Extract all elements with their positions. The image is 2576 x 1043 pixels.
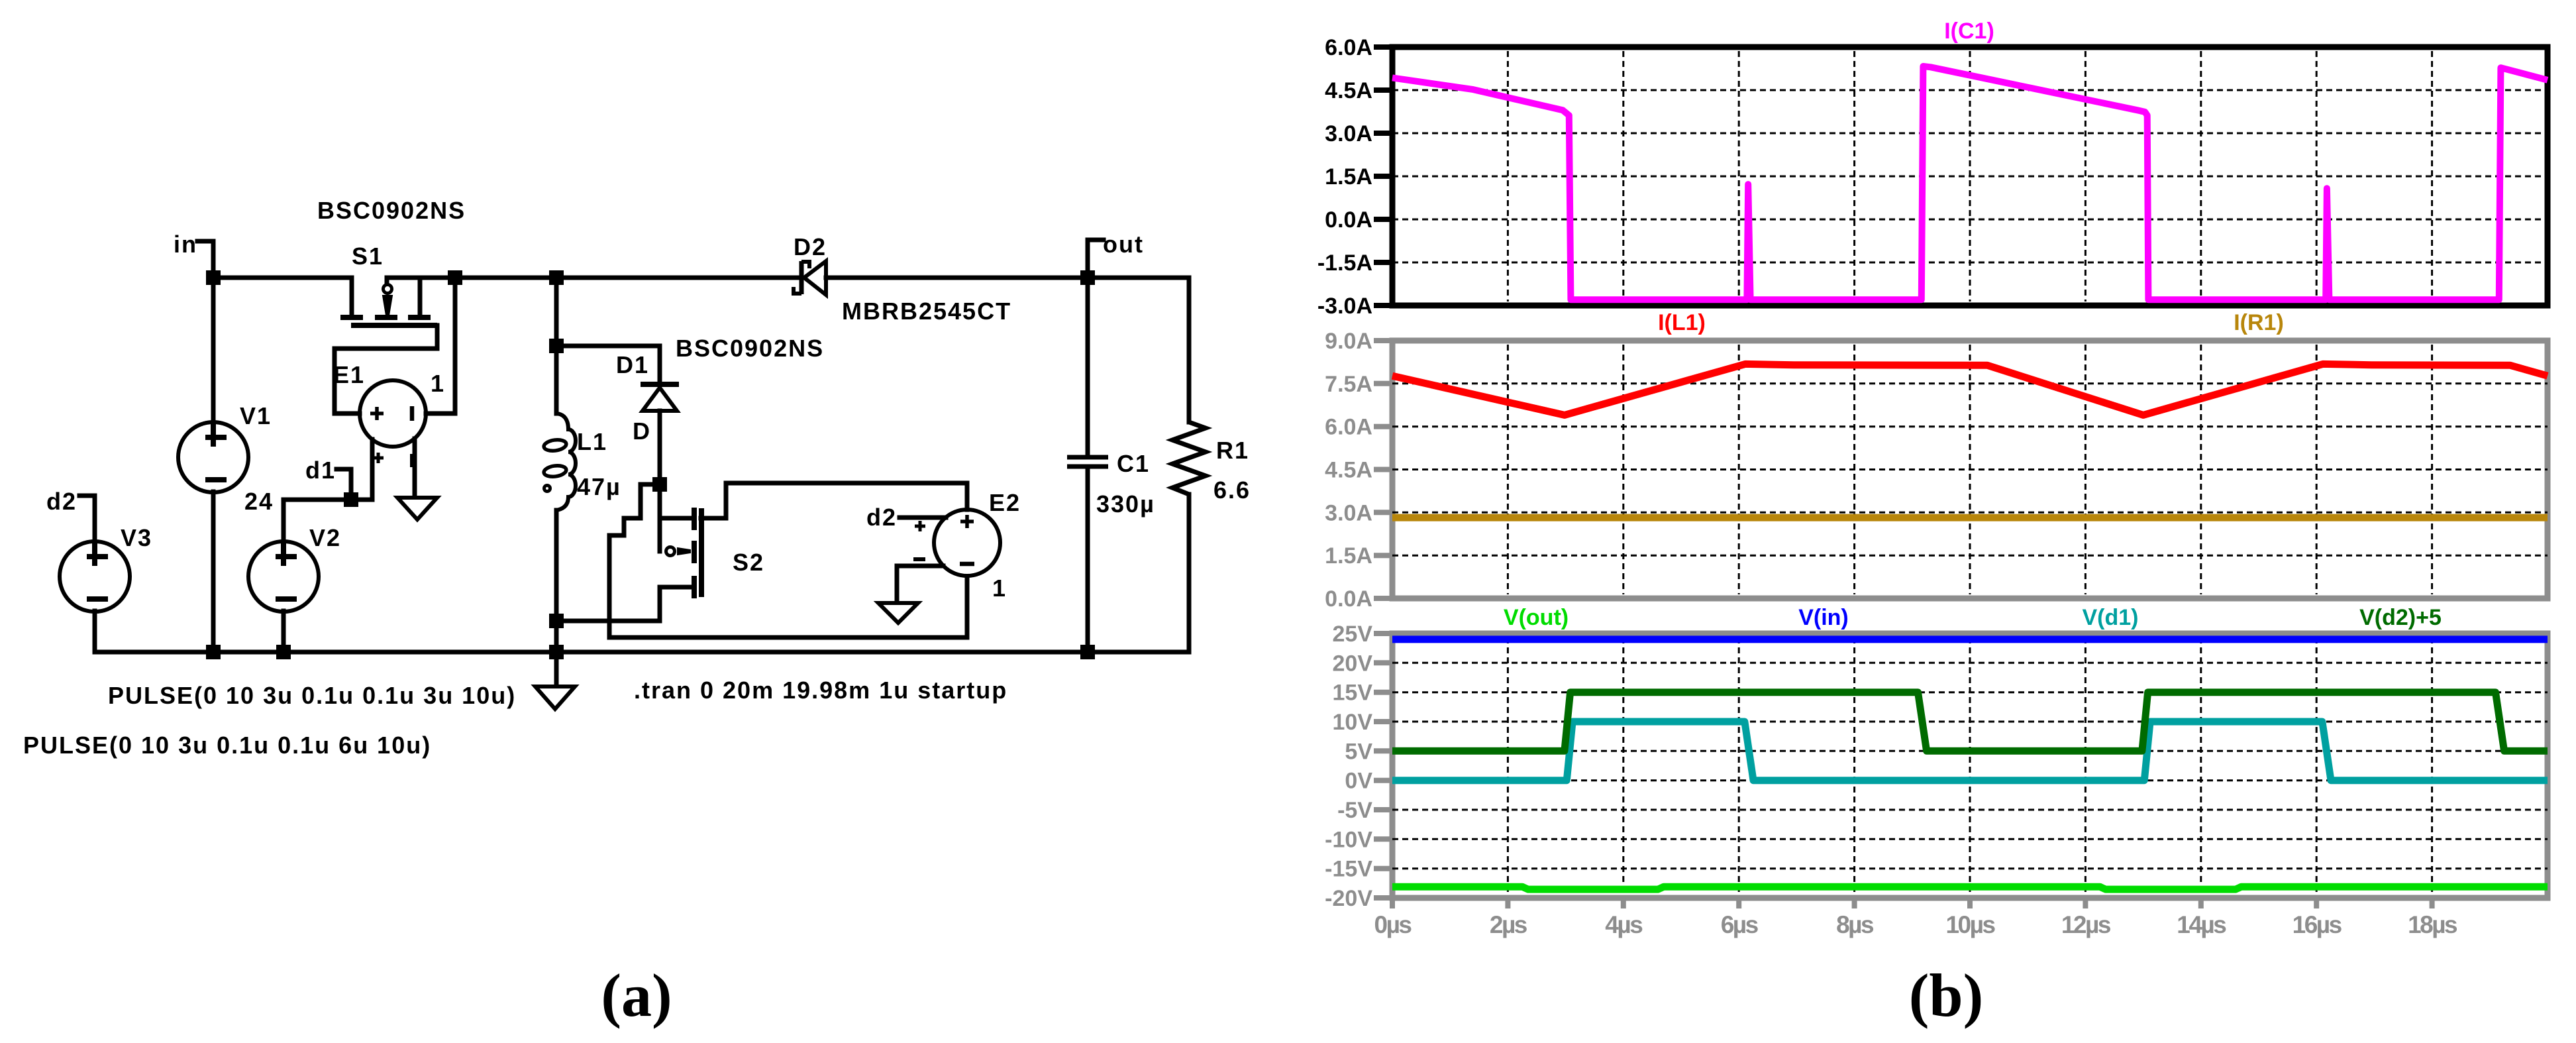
svg-text:20V: 20V bbox=[1333, 651, 1373, 676]
svg-text:6.6: 6.6 bbox=[1213, 476, 1251, 504]
switch S1 (BSC0902NS) bbox=[340, 278, 437, 325]
svg-text:10V: 10V bbox=[1333, 710, 1373, 735]
svg-text:BSC0902NS: BSC0902NS bbox=[317, 197, 466, 224]
waveform V(out) green bbox=[1392, 887, 2548, 889]
wire V2 top bbox=[282, 500, 286, 542]
svg-text:-20V: -20V bbox=[1325, 886, 1372, 911]
svg-text:4.5A: 4.5A bbox=[1325, 78, 1372, 103]
waveform I(R1) dark yellow bbox=[1392, 514, 2548, 521]
node d1 label stub bbox=[336, 469, 351, 500]
pane 3 y tick stubs bbox=[1374, 633, 1392, 898]
wire top rail (D2 anode to R1 top) bbox=[826, 276, 1189, 280]
svg-text:V1: V1 bbox=[240, 402, 272, 429]
svg-text:330µ: 330µ bbox=[1096, 490, 1155, 518]
svg-text:C1: C1 bbox=[1117, 450, 1150, 477]
plot pane 1 border (I(C1)) bbox=[1392, 47, 2548, 305]
pane 1 y axis labels bbox=[1317, 35, 1372, 319]
svg-text:d1: d1 bbox=[305, 457, 336, 484]
wire C1 top bbox=[1086, 278, 1090, 457]
inductor L1 47u bbox=[543, 413, 576, 510]
svg-text:BSC0902NS: BSC0902NS bbox=[676, 335, 824, 362]
capacitor C1 330u bbox=[1067, 457, 1108, 467]
node in label stub bbox=[197, 241, 213, 278]
pane 2 grid bbox=[1508, 345, 2432, 594]
svg-text:1.5A: 1.5A bbox=[1325, 543, 1372, 569]
wire L1 upper lead bbox=[554, 346, 559, 413]
svg-text:V(d2)+5: V(d2)+5 bbox=[2359, 605, 2442, 630]
controlled source E1 bbox=[360, 380, 426, 467]
svg-text:R1: R1 bbox=[1216, 437, 1249, 464]
wire S2 node to drain stubs bbox=[658, 491, 662, 551]
waveform I(C1) magenta bbox=[1392, 66, 2548, 300]
pane 1 grid bbox=[1508, 51, 2432, 302]
svg-text:PULSE(0 10 3u 0.1u 0.1u 3u 10u: PULSE(0 10 3u 0.1u 0.1u 3u 10u) bbox=[108, 682, 516, 709]
svg-text:0V: 0V bbox=[1345, 769, 1372, 794]
wire top rail right (S1 to D2 cathode) bbox=[387, 276, 801, 280]
junction node (322,419) bbox=[206, 270, 221, 285]
svg-text:V(in): V(in) bbox=[1798, 605, 1849, 630]
ground under E1 bbox=[397, 498, 437, 520]
wire bottom ground rail bbox=[95, 650, 1189, 655]
resistor R1 6.6 bbox=[1172, 422, 1206, 494]
svg-text:-1.5A: -1.5A bbox=[1317, 250, 1372, 276]
svg-text:0.0A: 0.0A bbox=[1325, 586, 1372, 612]
pane 3 y axis labels bbox=[1325, 622, 1372, 911]
waveform V(d1) cyan bbox=[1392, 722, 2548, 781]
waveform V(d2)+5 dark green bbox=[1392, 692, 2548, 751]
node d2 label stub (V3) bbox=[79, 496, 95, 542]
svg-text:S2: S2 bbox=[733, 549, 764, 576]
ground under E2 control bbox=[878, 603, 918, 623]
junction node (840,937) bbox=[549, 614, 564, 628]
svg-text:in: in bbox=[174, 231, 197, 258]
pane 2 y axis labels bbox=[1325, 329, 1372, 612]
svg-text:out: out bbox=[1103, 231, 1144, 258]
junction node (1642,984) bbox=[1080, 645, 1095, 659]
junction node (840,984) bbox=[549, 645, 564, 659]
svg-text:1: 1 bbox=[992, 575, 1007, 602]
svg-text:-3.0A: -3.0A bbox=[1317, 294, 1372, 319]
svg-text:D: D bbox=[633, 417, 651, 445]
pane 2 y tick stubs bbox=[1374, 341, 1392, 598]
wire ground stub below rail bbox=[554, 652, 559, 685]
svg-text:1.5A: 1.5A bbox=[1325, 164, 1372, 190]
wire V3 bottom bbox=[93, 611, 97, 652]
svg-text:25V: 25V bbox=[1333, 622, 1373, 647]
svg-text:1: 1 bbox=[431, 370, 445, 397]
wire V1 bottom bbox=[211, 492, 216, 652]
node out label stub bbox=[1088, 240, 1104, 278]
svg-text:4.5A: 4.5A bbox=[1325, 458, 1372, 483]
svg-text:(a): (a) bbox=[601, 961, 672, 1029]
junction node (687,419) bbox=[448, 270, 462, 285]
voltage source V1 bbox=[178, 422, 248, 492]
pane 3 grid bbox=[1508, 637, 2432, 894]
wire S1 gate to E1 plus output bbox=[335, 325, 437, 413]
svg-text:V3: V3 bbox=[121, 524, 152, 551]
svg-text:10µs: 10µs bbox=[1945, 911, 1995, 938]
svg-text:.tran 0 20m 19.98m 1u startup: .tran 0 20m 19.98m 1u startup bbox=[634, 677, 1007, 704]
svg-text:d2: d2 bbox=[866, 504, 897, 531]
wire d1 node to V2 top bbox=[283, 498, 351, 502]
wire D1 anode to S2 node bbox=[658, 411, 662, 484]
svg-text:MBRB2545CT: MBRB2545CT bbox=[842, 298, 1011, 325]
svg-text:0µs: 0µs bbox=[1374, 911, 1412, 938]
junction node (840,419) bbox=[549, 270, 564, 285]
switch S2 (BSC0902NS) bbox=[666, 508, 702, 598]
svg-text:L1: L1 bbox=[577, 428, 607, 455]
node d2 label stub (E2 control) bbox=[900, 516, 946, 520]
waveform I(L1) red bbox=[1392, 364, 2548, 415]
voltage source V2 bbox=[248, 541, 319, 612]
svg-text:2µs: 2µs bbox=[1490, 911, 1527, 938]
wire E1 minus output to top rail bbox=[426, 278, 455, 413]
junction node (996,731) bbox=[652, 477, 667, 492]
svg-text:S1: S1 bbox=[352, 243, 384, 270]
svg-text:47µ: 47µ bbox=[577, 473, 621, 500]
plot pane 3 border (voltages) bbox=[1392, 633, 2548, 898]
wire L1 lower lead bbox=[554, 510, 559, 652]
svg-text:15V: 15V bbox=[1333, 681, 1373, 706]
wire E2 plus output to S2 gate bbox=[701, 483, 967, 518]
wire R1 bottom lead bbox=[1187, 494, 1192, 652]
pane 3 x tick stubs bbox=[1392, 898, 2432, 908]
svg-text:V(out): V(out) bbox=[1504, 605, 1569, 630]
diode D2 (MBRB2545CT) bbox=[794, 261, 826, 295]
svg-text:24: 24 bbox=[244, 488, 274, 515]
junction node (428,984) bbox=[276, 645, 291, 659]
svg-text:D2: D2 bbox=[794, 233, 827, 260]
svg-text:V2: V2 bbox=[309, 524, 341, 551]
wire E2 control minus to ground bbox=[897, 566, 943, 602]
svg-text:E1: E1 bbox=[333, 361, 365, 388]
svg-text:9.0A: 9.0A bbox=[1325, 329, 1372, 354]
wire V1 top bbox=[211, 278, 216, 423]
wire S2 top stub bbox=[660, 516, 690, 521]
svg-text:V(d1): V(d1) bbox=[2083, 605, 2139, 630]
wire R1 top lead bbox=[1187, 278, 1192, 422]
svg-text:-5V: -5V bbox=[1337, 798, 1372, 823]
svg-text:I(R1): I(R1) bbox=[2234, 310, 2284, 335]
svg-text:I(L1): I(L1) bbox=[1658, 310, 1706, 335]
junction node (322,984) bbox=[206, 645, 221, 659]
voltage source V3 bbox=[60, 541, 130, 612]
svg-text:(b): (b) bbox=[1909, 961, 1983, 1029]
wire V2 bottom bbox=[282, 611, 286, 652]
wire L1 top branch bbox=[554, 278, 559, 346]
plot pane 2 border (I(L1), I(R1)) bbox=[1392, 341, 2548, 598]
svg-text:6.0A: 6.0A bbox=[1325, 415, 1372, 440]
junction node (530,754) bbox=[344, 492, 358, 507]
wire d1 node to E1 control plus bbox=[351, 439, 372, 500]
svg-text:3.0A: 3.0A bbox=[1325, 500, 1372, 525]
svg-text:6.0A: 6.0A bbox=[1325, 35, 1372, 60]
junction node (1642,419) bbox=[1080, 270, 1095, 285]
svg-text:6µs: 6µs bbox=[1721, 911, 1759, 938]
svg-text:18µs: 18µs bbox=[2408, 911, 2457, 938]
wire S2 node staircase to E2 minus output bbox=[609, 484, 967, 637]
wire S2 source stub to L1 bottom node bbox=[556, 587, 692, 621]
wire E1 control minus to ground bbox=[413, 439, 417, 496]
svg-text:PULSE(0 10 3u 0.1u 0.1u 6u 10u: PULSE(0 10 3u 0.1u 0.1u 6u 10u) bbox=[23, 732, 431, 759]
svg-text:14µs: 14µs bbox=[2177, 911, 2226, 938]
svg-text:d2: d2 bbox=[46, 488, 77, 515]
svg-text:12µs: 12µs bbox=[2061, 911, 2111, 938]
svg-text:3.0A: 3.0A bbox=[1325, 121, 1372, 146]
waveform V(in) blue bbox=[1392, 635, 2548, 643]
x axis labels bbox=[1374, 911, 2458, 938]
wire L1 node to D1 cathode bbox=[556, 346, 660, 383]
ground under bottom rail bbox=[535, 686, 575, 709]
pane 1 y tick stubs bbox=[1374, 47, 1392, 305]
svg-text:8µs: 8µs bbox=[1836, 911, 1874, 938]
svg-text:0.0A: 0.0A bbox=[1325, 207, 1372, 233]
wire top rail left (in node to S1 drain) bbox=[213, 276, 352, 280]
controlled source E2 bbox=[913, 510, 1000, 576]
svg-text:7.5A: 7.5A bbox=[1325, 372, 1372, 397]
svg-text:-15V: -15V bbox=[1325, 857, 1372, 882]
svg-text:16µs: 16µs bbox=[2293, 911, 2342, 938]
svg-text:4µs: 4µs bbox=[1605, 911, 1643, 938]
junction node (840,522) bbox=[549, 339, 564, 353]
svg-text:D1: D1 bbox=[616, 351, 649, 378]
svg-text:E2: E2 bbox=[989, 489, 1021, 516]
diode D1 bbox=[641, 384, 679, 411]
svg-text:-10V: -10V bbox=[1325, 827, 1372, 852]
wire C1 bottom bbox=[1086, 467, 1090, 652]
svg-text:I(C1): I(C1) bbox=[1944, 19, 1994, 44]
svg-text:5V: 5V bbox=[1345, 739, 1372, 764]
